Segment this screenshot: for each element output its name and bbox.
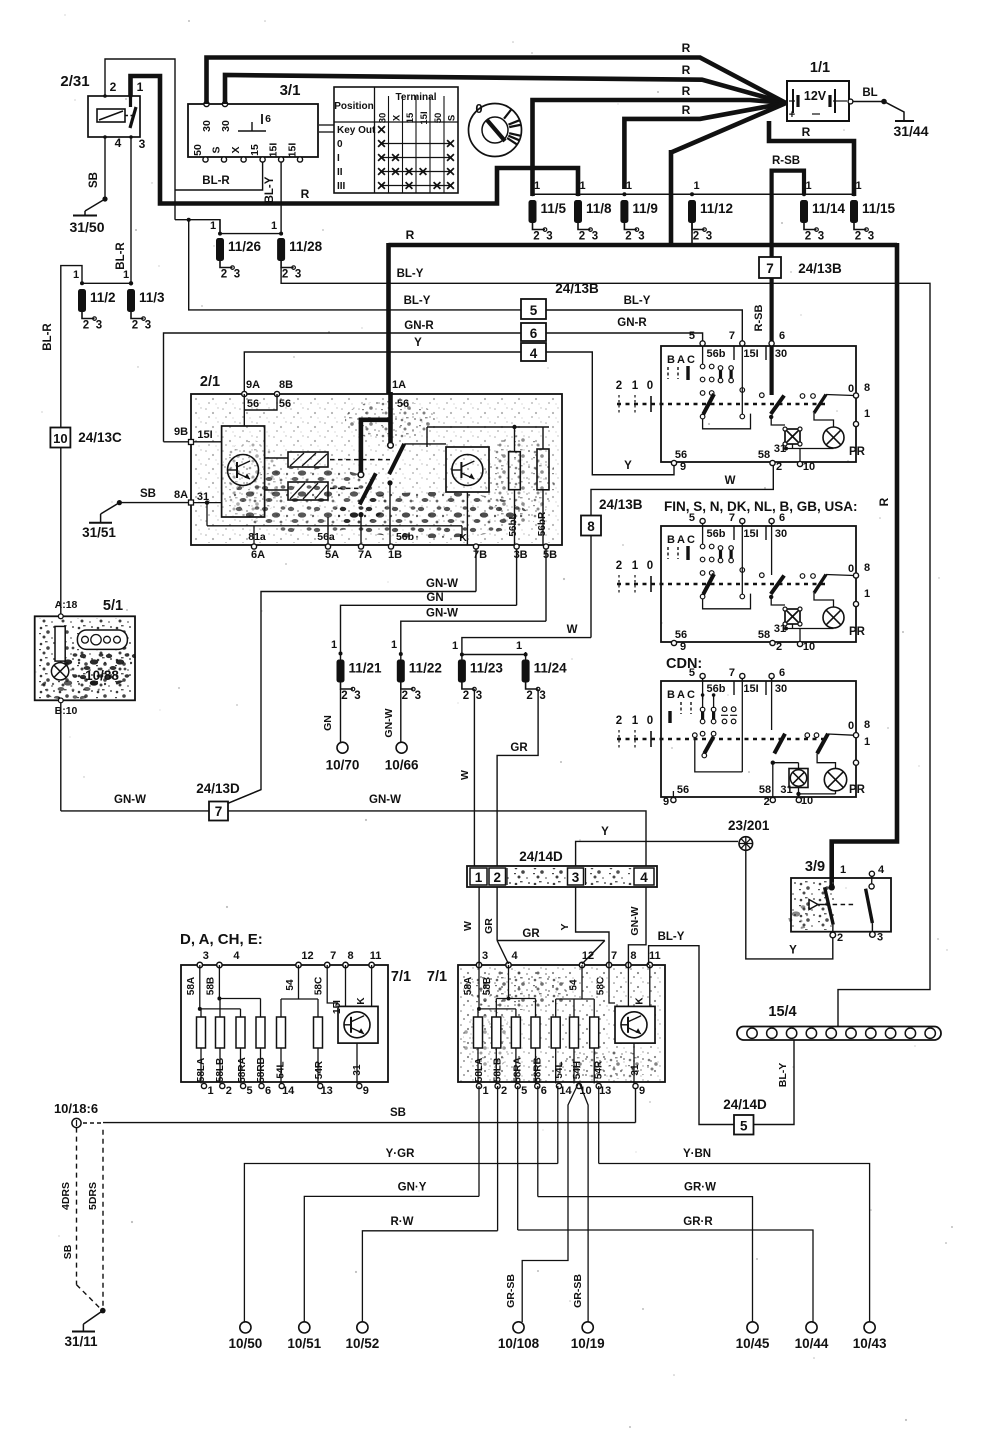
svg-text:58: 58 [758, 449, 770, 461]
svg-text:15: 15 [249, 144, 261, 156]
svg-text:2: 2 [776, 641, 782, 653]
svg-text:4: 4 [530, 346, 538, 361]
svg-text:3: 3 [572, 870, 580, 885]
2/1 resistors 56bL 56bR [509, 452, 521, 490]
3/2 beam lamp [789, 769, 808, 788]
svg-text:8: 8 [864, 562, 870, 574]
svg-text:3/1: 3/1 [280, 82, 301, 99]
2/1 switch contacts [360, 473, 376, 504]
svg-text:58C: 58C [314, 977, 325, 995]
3/9 contacts [825, 887, 834, 924]
svg-text:54R: 54R [594, 1060, 605, 1079]
connector 24/13D pin 7 [209, 802, 228, 821]
svg-text:III: III [337, 181, 346, 192]
3/2 contact circles [700, 544, 705, 549]
svg-text:3: 3 [476, 690, 482, 702]
svg-text:10: 10 [803, 641, 815, 653]
svg-text:8A: 8A [174, 489, 188, 501]
3/2 beam lamp [785, 429, 800, 444]
svg-text:3: 3 [868, 231, 874, 243]
svg-text:W: W [459, 770, 471, 780]
svg-text:5B: 5B [543, 549, 557, 561]
svg-text:2: 2 [616, 715, 622, 727]
fuse 11/21 [339, 652, 343, 656]
svg-text:BL-Y: BL-Y [264, 176, 276, 203]
svg-text:5: 5 [521, 1085, 527, 1097]
svg-text:BL: BL [862, 87, 877, 99]
wire R-SB connector to light switch 3/2 pin6 [769, 278, 773, 346]
svg-text:1: 1 [271, 220, 277, 232]
svg-text:R: R [877, 497, 891, 506]
svg-text:24/13B: 24/13B [599, 497, 643, 512]
svg-text:31/50: 31/50 [69, 219, 104, 235]
svg-text:2: 2 [764, 796, 770, 808]
svg-text:A: A [677, 354, 685, 366]
wire Y 23/201 to switch 3/9 pin2 [746, 850, 833, 959]
svg-text:10/108: 10/108 [498, 1336, 540, 1351]
svg-text:4: 4 [878, 864, 885, 876]
svg-text:GN-R: GN-R [404, 320, 434, 332]
svg-text:X: X [230, 146, 242, 153]
svg-text:30: 30 [775, 683, 787, 695]
svg-text:58A: 58A [186, 977, 197, 995]
ground 31/51 [100, 514, 102, 522]
svg-text:9: 9 [680, 641, 686, 653]
svg-text:GR: GR [483, 918, 495, 934]
svg-text:7/1: 7/1 [391, 969, 411, 985]
svg-text:5: 5 [689, 667, 695, 679]
svg-text:6: 6 [265, 1085, 271, 1097]
svg-text:11/28: 11/28 [289, 239, 323, 254]
svg-text:5: 5 [689, 512, 695, 524]
svg-text:Y: Y [559, 923, 571, 930]
fuse 11/22 [397, 660, 405, 683]
svg-text:PR: PR [849, 626, 866, 638]
svg-text:W: W [462, 921, 474, 931]
2/1 pins 9A 8B 1A [242, 391, 247, 396]
svg-text:15I: 15I [743, 528, 758, 540]
svg-text:0: 0 [848, 563, 854, 575]
wire BL-Y connector to 3/2 pin7 [546, 310, 742, 346]
svg-text:58LA: 58LA [474, 1058, 485, 1082]
wire GR fuse 11/24 to connector 24/14D pin2 [497, 689, 538, 866]
courtesy switch 3/9 [792, 879, 836, 930]
svg-text:6: 6 [541, 1085, 547, 1097]
svg-text:2: 2 [493, 870, 501, 885]
svg-text:10/51: 10/51 [287, 1336, 321, 1351]
svg-text:B: B [667, 534, 675, 546]
wire Y-BN 7/1 pin13 to 10/43 [598, 1086, 600, 1164]
svg-text:15I: 15I [197, 429, 212, 441]
svg-text:2: 2 [221, 269, 227, 281]
svg-text:7A: 7A [358, 549, 372, 561]
svg-text:R: R [682, 84, 691, 98]
wire GR-W 7/1 pin6 to 10/45 [537, 1086, 539, 1197]
ignition position table [334, 87, 458, 193]
7/1 interior wires [199, 965, 201, 1009]
3/2 wire 15I column [741, 526, 743, 594]
fuse 11/15 [850, 200, 858, 223]
svg-text:31: 31 [630, 1064, 641, 1076]
svg-text:31: 31 [780, 784, 792, 796]
5/1 warning lamp [51, 663, 68, 680]
svg-text:2: 2 [625, 231, 631, 243]
dashed wires 4DRS 5DRS to ground 31/11 [76, 1128, 78, 1285]
svg-text:7: 7 [766, 261, 774, 276]
svg-text:7: 7 [729, 330, 735, 342]
svg-text:1: 1 [840, 864, 846, 876]
svg-text:GN-R: GN-R [617, 317, 647, 329]
wire W from 3/2 pin2 through connector 8 to fuse 11/23 [591, 465, 773, 516]
svg-text:BL-Y: BL-Y [624, 295, 651, 307]
svg-text:30: 30 [220, 120, 232, 132]
3/2 wire 15I column [741, 346, 743, 414]
svg-text:2: 2 [226, 1085, 232, 1097]
svg-text:Y·GR: Y·GR [386, 1148, 415, 1160]
svg-text:2: 2 [110, 80, 117, 94]
svg-text:58: 58 [759, 784, 771, 796]
svg-text:A: A [677, 534, 685, 546]
svg-text:2: 2 [776, 461, 782, 473]
svg-text:81a: 81a [248, 531, 266, 543]
svg-text:4: 4 [233, 950, 240, 962]
3/2 parking lamp PR [823, 607, 844, 628]
wire SB to ground 31/51 [119, 502, 188, 504]
svg-text:GR·R: GR·R [683, 1216, 713, 1228]
svg-text:6: 6 [265, 113, 271, 125]
svg-text:GN: GN [322, 715, 334, 731]
svg-text:10/70: 10/70 [326, 758, 360, 773]
svg-text:B: B [667, 354, 675, 366]
3/2 terminal labels 56b 15I 30 [733, 681, 735, 695]
svg-text:X: X [392, 114, 403, 121]
wire GN-R to 2/1 and 3/2 pin5 [164, 333, 522, 442]
svg-text:11/14: 11/14 [812, 201, 846, 216]
svg-text:1: 1 [805, 180, 811, 192]
svg-text:1: 1 [482, 1085, 488, 1097]
3/2 parking lamp PR [824, 768, 846, 790]
svg-text:58B: 58B [206, 977, 217, 995]
fuse 11/3 [127, 289, 135, 312]
wire GR 24/14D pin2 to 7/1 pins 4 12 [496, 887, 498, 941]
svg-text:15: 15 [405, 112, 416, 123]
svg-text:15/4: 15/4 [768, 1004, 796, 1020]
fuse 11/5 [529, 200, 537, 223]
svg-text:11/3: 11/3 [139, 290, 165, 305]
svg-text:11/5: 11/5 [541, 201, 567, 216]
svg-text:BL-R: BL-R [202, 175, 230, 187]
svg-text:23/201: 23/201 [728, 818, 770, 833]
svg-text:2: 2 [463, 690, 469, 702]
svg-text:1: 1 [391, 639, 397, 651]
wire W fuse 11/23 to connector 24/14D pin1 [473, 688, 475, 690]
svg-text:GN-W: GN-W [369, 794, 401, 806]
svg-text:Key Out: Key Out [337, 125, 376, 136]
svg-text:8: 8 [864, 382, 870, 394]
connector 24/13C pin 10 [50, 428, 70, 448]
svg-text:50: 50 [433, 113, 444, 124]
svg-text:3: 3 [354, 690, 360, 702]
svg-text:58RA: 58RA [237, 1057, 248, 1083]
svg-text:K: K [459, 532, 467, 544]
svg-text:10: 10 [801, 795, 813, 807]
svg-text:8: 8 [630, 950, 636, 962]
svg-text:GR·W: GR·W [684, 1182, 716, 1194]
svg-text:3: 3 [877, 932, 883, 944]
svg-text:6: 6 [779, 667, 785, 679]
svg-text:R: R [682, 103, 691, 117]
svg-text:11/24: 11/24 [534, 661, 568, 676]
svg-text:K: K [356, 997, 367, 1005]
svg-text:10/45: 10/45 [736, 1336, 770, 1351]
svg-text:0: 0 [475, 101, 482, 116]
bulb monitor unit 5/1 [36, 618, 134, 699]
svg-text:10/19: 10/19 [571, 1336, 605, 1351]
svg-text:11/23: 11/23 [470, 661, 504, 676]
svg-text:24/13C: 24/13C [78, 430, 122, 445]
svg-text:1: 1 [534, 180, 540, 192]
2/1 interior wires [427, 426, 549, 428]
2/1 relay driver box [222, 426, 265, 517]
svg-text:1: 1 [207, 1085, 213, 1097]
svg-text:SB: SB [62, 1244, 74, 1259]
svg-text:BL-Y: BL-Y [658, 931, 685, 943]
wire GN-W 24/14D pin4 to 7/1 pin8 [628, 887, 646, 965]
svg-text:2: 2 [579, 231, 585, 243]
svg-text:2: 2 [855, 231, 861, 243]
svg-text:W: W [567, 624, 578, 636]
wire BL-Y ignition 15I down to fuse 11/28 [280, 162, 282, 234]
svg-text:3: 3 [818, 231, 824, 243]
svg-text:C: C [687, 354, 695, 366]
svg-text:12: 12 [582, 950, 594, 962]
svg-text:GN-W: GN-W [114, 794, 146, 806]
fuse 11/8 [574, 200, 582, 223]
svg-text:BL-Y: BL-Y [777, 1063, 789, 1088]
svg-text:SB: SB [140, 488, 156, 500]
svg-text:R: R [301, 187, 310, 201]
svg-text:13: 13 [599, 1085, 611, 1097]
svg-text:3: 3 [234, 269, 240, 281]
svg-text:BL-Y: BL-Y [404, 295, 431, 307]
svg-text:1: 1 [331, 639, 337, 651]
wire GN-W fuse 11/22 to 10/66 [400, 689, 402, 742]
svg-text:8: 8 [864, 719, 870, 731]
svg-text:BL-R: BL-R [42, 323, 54, 351]
svg-text:56: 56 [247, 398, 259, 410]
svg-text:58A: 58A [463, 977, 474, 995]
svg-text:1: 1 [516, 640, 522, 652]
svg-text:2: 2 [341, 690, 347, 702]
svg-text:B:10: B:10 [55, 705, 78, 717]
svg-text:3: 3 [145, 320, 151, 332]
svg-text:5: 5 [247, 1085, 253, 1097]
svg-text:11/12: 11/12 [700, 201, 733, 216]
svg-text:0: 0 [337, 139, 343, 150]
svg-text:8: 8 [587, 519, 595, 534]
wire W 24/14D pin1 to 7/1 pin3 [478, 887, 480, 965]
svg-text:1: 1 [73, 269, 79, 281]
ground 31/50 [84, 211, 86, 215]
3/2 wire 30 feed [769, 346, 773, 395]
svg-text:24/13B: 24/13B [555, 281, 599, 296]
svg-text:24/14D: 24/14D [723, 1097, 767, 1112]
7/1 output transistor [338, 1006, 378, 1043]
wire R battery to fuse 11/9 [624, 103, 786, 189]
svg-text:8B: 8B [279, 379, 293, 391]
wire GN-W 2/1 pin5B to fuse 11/22 [545, 549, 547, 621]
svg-text:3/9: 3/9 [805, 859, 825, 875]
svg-text:15I: 15I [743, 683, 758, 695]
svg-text:10/52: 10/52 [346, 1336, 380, 1351]
svg-text:58RB: 58RB [256, 1057, 267, 1083]
svg-text:1: 1 [475, 870, 483, 885]
key-lock symbol inside 3/1 [238, 130, 266, 132]
svg-text:56: 56 [677, 784, 689, 796]
svg-text:7: 7 [729, 667, 735, 679]
svg-text:11/9: 11/9 [632, 201, 658, 216]
svg-text:R: R [682, 41, 691, 55]
svg-text:SB: SB [88, 172, 100, 188]
svg-text:2: 2 [282, 269, 288, 281]
thick wire R right side down to switch 3/9 [832, 243, 897, 888]
svg-text:GN-W: GN-W [383, 708, 395, 737]
3/2 beam lamp [785, 609, 800, 624]
wire GN 2/1 pin3B to fuse 11/21 [516, 549, 518, 605]
fuse 11/2 11/3 supply [82, 282, 131, 284]
7/1 interior wires [478, 965, 480, 1009]
svg-text:R: R [682, 63, 691, 77]
svg-text:56: 56 [675, 449, 687, 461]
fuse 11/26 supply [219, 220, 221, 234]
svg-text:+: + [789, 109, 795, 121]
fuse 11/12 [688, 200, 696, 223]
fuse 11/24 [524, 653, 528, 657]
fuse 11/28 [277, 238, 285, 261]
svg-text:15I: 15I [419, 111, 430, 124]
light switch 3/2 (third CDN) [661, 681, 856, 797]
breaker 23/201 [739, 837, 753, 851]
svg-text:2: 2 [533, 231, 539, 243]
svg-text:11/21: 11/21 [349, 661, 383, 676]
fuse supply bus [533, 193, 855, 195]
svg-text:11/2: 11/2 [90, 290, 116, 305]
svg-text:58: 58 [758, 629, 770, 641]
svg-text:6A: 6A [251, 549, 265, 561]
svg-text:0: 0 [647, 560, 653, 572]
svg-text:30: 30 [201, 120, 213, 132]
svg-text:2: 2 [402, 690, 408, 702]
ground 31/44 [895, 120, 914, 122]
fuse 11/23 [458, 660, 466, 683]
svg-text:GN-W: GN-W [426, 608, 458, 620]
svg-text:GR-SB: GR-SB [505, 1274, 517, 1308]
3/2 top pins 5 7 6 [700, 673, 705, 678]
light switch 3/2 (second) [661, 526, 856, 642]
svg-text:D, A, CH, E:: D, A, CH, E: [180, 931, 263, 948]
svg-text:1: 1 [452, 640, 458, 652]
wire Y connector 24/14D pin3 to 23/201 [576, 841, 738, 866]
svg-text:12V: 12V [804, 89, 827, 103]
3/2 contact circles [701, 693, 705, 697]
wire GR-R 7/1 pin5 to 10/44 [517, 1086, 519, 1230]
svg-text:54R: 54R [314, 1060, 325, 1079]
3/2 parking lamp PR [823, 427, 844, 448]
wire 2/31 pin4 SB to ground 31/50 [104, 137, 106, 199]
svg-text:13: 13 [321, 1085, 333, 1097]
svg-text:10: 10 [53, 431, 67, 446]
svg-text:BL-R: BL-R [115, 242, 127, 270]
connector 24/14D pin 5 [734, 1115, 754, 1135]
svg-text:9: 9 [639, 1085, 645, 1097]
svg-text:Position: Position [334, 101, 373, 112]
output terminals bottom row [240, 1322, 251, 1333]
svg-text:56: 56 [279, 398, 291, 410]
svg-text:2: 2 [805, 231, 811, 243]
wire BL-R jog to fuse 11/26 and BL-Y line [175, 220, 220, 234]
svg-text:2: 2 [693, 231, 699, 243]
svg-text:K: K [634, 997, 645, 1005]
svg-text:2: 2 [526, 690, 532, 702]
svg-text:58B: 58B [482, 977, 493, 995]
svg-text:56a: 56a [317, 531, 335, 543]
svg-text:2: 2 [501, 1085, 507, 1097]
svg-text:1: 1 [210, 220, 216, 232]
wire GR-SB 7/1 pin10 to 10/108 and 10/19 [522, 1082, 579, 1322]
svg-text:7B: 7B [473, 549, 487, 561]
3/9 pin4 stub [869, 871, 874, 876]
battery 1/1 [787, 81, 849, 121]
svg-text:6: 6 [779, 330, 785, 342]
svg-text:0: 0 [848, 720, 854, 732]
fuse 11/21 [337, 660, 345, 683]
svg-text:S: S [211, 146, 223, 153]
table link to 3/1 [319, 124, 334, 126]
svg-text:3: 3 [638, 231, 644, 243]
7/1 resistors [197, 1017, 206, 1048]
svg-text:1: 1 [632, 380, 639, 392]
3/2 wire 15I column [741, 681, 743, 772]
svg-text:7: 7 [330, 950, 336, 962]
svg-text:11: 11 [649, 950, 661, 962]
svg-text:R-SB: R-SB [772, 155, 800, 167]
svg-text:W: W [725, 475, 736, 487]
light switch 3/2 (first) [661, 346, 856, 462]
svg-text:15I: 15I [268, 143, 280, 158]
svg-text:54: 54 [568, 979, 579, 991]
svg-text:56bL: 56bL [508, 513, 519, 536]
svg-text:5: 5 [689, 330, 695, 342]
svg-text:9: 9 [363, 1085, 369, 1097]
svg-text:31/51: 31/51 [82, 525, 116, 540]
7/1 output transistor [615, 1006, 655, 1043]
svg-text:56b: 56b [707, 683, 726, 695]
svg-text:GR: GR [522, 928, 540, 940]
3/2 terminal labels 56b 15I 30 [733, 346, 735, 360]
3/2 interior link wire [703, 414, 751, 429]
2/1 output transistor [446, 447, 489, 492]
svg-text:10/18:6: 10/18:6 [54, 1101, 98, 1116]
wire GN-W 5/1 to connector 24/13D and 24/14D pin4 [60, 703, 62, 811]
fuse 11/26 [216, 238, 224, 261]
svg-text:10: 10 [803, 461, 815, 473]
svg-text:Y·BN: Y·BN [683, 1148, 711, 1160]
svg-text:PR: PR [849, 784, 866, 796]
5/1 cluster icon [77, 630, 127, 649]
svg-text:14: 14 [282, 1085, 295, 1097]
2/1 relay coils [288, 452, 328, 467]
wire Y 24/14D pin3 to 7/1 pin7 [576, 887, 609, 965]
